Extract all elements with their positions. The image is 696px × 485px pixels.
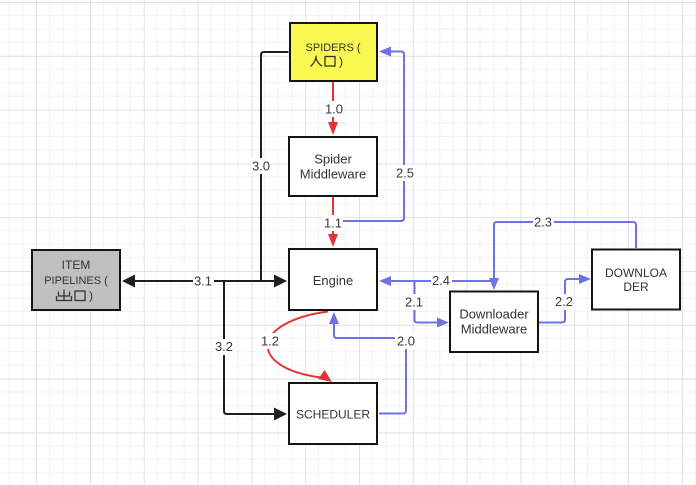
wire 2.0 (SCHEDULER right up to Engine bottom)	[329, 312, 406, 414]
box SPIDERS (entry)	[290, 23, 377, 81]
wire 2.4 (junction to Engine right)	[379, 276, 494, 286]
svg-text:DER: DER	[623, 280, 649, 294]
wire 2.2 (Downloader Middleware right to DOWNLOADER left)	[539, 274, 591, 323]
label 3.0	[251, 158, 272, 174]
wire 3.2 (3.1 line down to SCHEDULER)	[224, 281, 287, 421]
label 1.1	[322, 215, 343, 231]
wire 2.1 (2.4 line down to Downloader Middleware left)	[415, 281, 450, 328]
svg-text:1.1: 1.1	[324, 216, 342, 231]
svg-text:2.1: 2.1	[405, 295, 423, 310]
box Spider Middleware	[289, 137, 377, 196]
wire 2.5 (1.1 midpoint to SPIDERS right)	[333, 47, 404, 222]
box Downloader Middleware	[450, 292, 538, 353]
label 2.4	[431, 273, 452, 289]
svg-text:2.4: 2.4	[432, 273, 450, 288]
svg-text:SCHEDULER: SCHEDULER	[296, 408, 370, 422]
wire 2.3 (DOWNLOADER top to Downloader Middleware top)	[489, 222, 636, 290]
wire 1.1 (Spider Middleware to Engine, red)	[328, 197, 338, 247]
svg-text:PIPELINES (: PIPELINES (	[44, 275, 108, 287]
svg-text:Engine: Engine	[313, 273, 353, 288]
wire 1.2 (Engine to SCHEDULER, red curve)	[268, 312, 332, 383]
svg-text:ITEM: ITEM	[62, 258, 91, 272]
label 2.3	[533, 214, 554, 230]
box DOWNLOADER	[592, 250, 680, 310]
label 3.1	[193, 273, 214, 289]
svg-text:Middleware: Middleware	[461, 322, 527, 337]
wire 3.1 (ITEM PIPELINES to Engine, double arrow)	[122, 275, 287, 288]
label 3.2	[214, 339, 235, 355]
svg-text:3.2: 3.2	[215, 339, 233, 354]
label 2.5	[395, 165, 416, 181]
svg-text:1.2: 1.2	[261, 334, 279, 349]
svg-text:Spider: Spider	[314, 152, 352, 167]
label 2.2	[554, 294, 575, 310]
wire 1.0 (SPIDERS to Spider Middleware, red)	[328, 82, 338, 135]
svg-text:Middleware: Middleware	[300, 167, 366, 182]
box ITEM PIPELINES (exit)	[32, 250, 120, 310]
label 2.0	[395, 333, 416, 349]
svg-text:2.5: 2.5	[396, 166, 414, 181]
svg-text:): )	[339, 55, 343, 69]
wire 3.0 (SPIDERS left to 3.1 line)	[261, 52, 289, 281]
label 2.1	[404, 294, 425, 310]
svg-text:2.2: 2.2	[555, 294, 573, 309]
svg-text:3.1: 3.1	[194, 274, 212, 289]
svg-text:DOWNLOA: DOWNLOA	[605, 266, 667, 280]
svg-text:SPIDERS (: SPIDERS (	[305, 42, 360, 54]
box Engine	[289, 249, 377, 310]
svg-text:): )	[89, 289, 93, 303]
svg-text:2.0: 2.0	[397, 334, 415, 349]
svg-text:Downloader: Downloader	[459, 307, 529, 322]
label 1.2	[259, 333, 280, 349]
box SCHEDULER	[289, 383, 377, 444]
label 1.0	[323, 101, 344, 117]
svg-text:2.3: 2.3	[534, 215, 552, 230]
svg-text:3.0: 3.0	[252, 159, 270, 174]
svg-text:1.0: 1.0	[325, 102, 343, 117]
